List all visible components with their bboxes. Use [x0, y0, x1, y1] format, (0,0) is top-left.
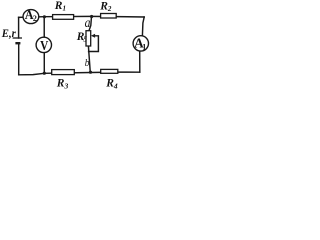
wire R5 box to b	[88, 46, 90, 73]
resistor R3	[52, 70, 75, 75]
svg-text:5: 5	[83, 34, 87, 43]
ammeter A1	[133, 36, 148, 51]
svg-text:b: b	[85, 57, 90, 69]
svg-text:1: 1	[142, 43, 146, 52]
voltmeter V	[36, 37, 51, 52]
wire top	[19, 16, 145, 17]
node junction top V	[43, 15, 46, 18]
wire R5 branch	[89, 16, 92, 31]
wire left edge lower	[18, 43, 20, 75]
ammeter A2	[23, 10, 39, 24]
wire slider loop	[89, 36, 99, 52]
node b junction	[89, 71, 92, 74]
wire right edge	[142, 17, 144, 36]
resistor R4	[101, 69, 118, 73]
wire A1 to bottom	[139, 51, 141, 72]
slider arrowhead	[91, 34, 95, 38]
wire voltmeter branch	[43, 17, 45, 74]
node junction bottom V	[43, 72, 46, 75]
svg-text:V: V	[40, 39, 48, 54]
wire bottom	[19, 72, 140, 75]
resistor R2	[101, 14, 117, 19]
svg-text:2: 2	[33, 14, 37, 23]
svg-text:E,r: E,r	[1, 26, 16, 40]
wire left edge upper	[18, 17, 20, 38]
resistor R1	[53, 15, 74, 20]
resistor R5 (rheostat)	[86, 31, 91, 46]
node a junction	[90, 15, 93, 18]
svg-text:a: a	[85, 16, 91, 31]
battery E,r	[13, 38, 22, 43]
